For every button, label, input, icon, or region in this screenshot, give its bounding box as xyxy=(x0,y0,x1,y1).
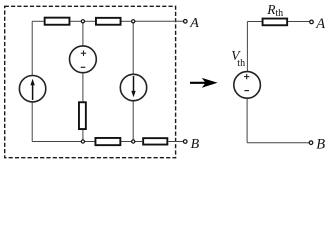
terminal A right circuit xyxy=(310,20,314,24)
svg-text:th: th xyxy=(237,58,245,69)
voltage source V1 minus sign xyxy=(81,66,86,68)
resistor R2 xyxy=(96,18,121,25)
voltage source V1 plus sign xyxy=(81,52,86,54)
wire Rth right lead to terminal A xyxy=(288,21,310,23)
wire bottom rail R3 to node d xyxy=(121,141,142,143)
wire middle branch V1 to R5 xyxy=(82,73,84,102)
voltage source Vth xyxy=(234,72,261,99)
wire middle branch node a to V1 xyxy=(82,21,84,46)
svg-text:A: A xyxy=(189,16,199,31)
voltage source V1 xyxy=(70,46,97,73)
node c junction xyxy=(81,140,84,143)
voltage source Vth plus sign xyxy=(244,76,249,78)
wire R4 to terminal B xyxy=(168,141,183,143)
svg-text:A: A xyxy=(315,16,325,32)
wire R2 to node b xyxy=(122,20,134,22)
wire bottom rail left xyxy=(32,141,94,143)
node b junction xyxy=(132,20,135,23)
resistor Rth xyxy=(263,19,288,26)
wire right branch node b to I2 xyxy=(132,21,134,74)
wire Vth top lead xyxy=(246,22,248,72)
implication arrow xyxy=(190,82,207,84)
terminal A left circuit xyxy=(184,20,188,24)
wire right branch I2 to node d xyxy=(132,101,134,142)
svg-text:B: B xyxy=(316,137,325,153)
resistor R1 xyxy=(45,18,70,25)
wire node a to R2 xyxy=(83,20,95,22)
wire node b to terminal A xyxy=(133,20,183,22)
wire left branch lower xyxy=(31,102,33,142)
terminal B left circuit xyxy=(183,140,187,144)
current source I2 arrow xyxy=(133,76,135,91)
dashed network box xyxy=(5,6,176,157)
voltage source Vth minus sign xyxy=(244,90,249,92)
wire left branch upper xyxy=(31,21,33,75)
resistor R3 xyxy=(95,138,120,145)
current source I1 xyxy=(19,76,45,102)
wire Vth bottom lead xyxy=(246,98,248,143)
wire middle branch R5 to node c xyxy=(82,130,84,142)
node d junction xyxy=(132,140,135,143)
wire top rail R1 to node a xyxy=(70,20,83,22)
svg-text:th: th xyxy=(275,8,283,19)
terminal B right circuit xyxy=(309,141,313,145)
current source I2 xyxy=(120,74,146,100)
resistor R4 xyxy=(143,138,167,144)
resistor R5 vertical xyxy=(79,102,86,129)
node a junction xyxy=(81,20,84,23)
svg-text:B: B xyxy=(191,137,200,152)
wire top rail left xyxy=(32,20,44,22)
wire Rth left lead xyxy=(247,21,261,23)
wire bottom to terminal B right xyxy=(247,142,309,144)
current source I1 arrow xyxy=(32,85,34,101)
